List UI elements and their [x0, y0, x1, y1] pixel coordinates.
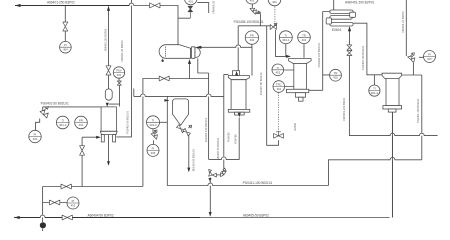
svg-text:401-2: 401-2 [59, 123, 67, 127]
svg-text:402: 402 [333, 76, 338, 80]
svg-text:PG0405-100 B02L01: PG0405-100 B02L01 [234, 20, 264, 24]
svg-text:PI: PI [64, 43, 67, 47]
svg-text:A60405-50 B3P02: A60405-50 B3P02 [243, 213, 269, 217]
svg-text:FR: FR [250, 34, 254, 38]
svg-text:VR0403-25 B3P02: VR0403-25 B3P02 [212, 0, 216, 14]
svg-text:PI: PI [152, 146, 155, 150]
svg-text:TI: TI [152, 118, 155, 122]
svg-text:TI: TI [277, 66, 280, 70]
svg-text:401: 401 [117, 73, 122, 77]
svg-text:402: 402 [71, 204, 76, 208]
svg-text:PG0405 100 B02L01: PG0405 100 B02L01 [204, 117, 208, 142]
svg-text:VR0401-25 B3P02: VR0401-25 B3P02 [120, 40, 124, 62]
svg-text:PG0406-100 B02L01: PG0406-100 B02L01 [317, 42, 321, 67]
svg-text:A66403 125 B3P02: A66403 125 B3P02 [104, 28, 108, 51]
svg-text:B00104 50 B02L01: B00104 50 B02L01 [191, 149, 195, 172]
svg-text:PG0402-50 B02L01: PG0402-50 B02L01 [126, 111, 130, 134]
svg-text:TI: TI [373, 87, 376, 91]
svg-text:E0404: E0404 [332, 28, 341, 32]
svg-text:PI: PI [428, 53, 431, 57]
svg-text:PG0406-100 B02L01: PG0406-100 B02L01 [361, 45, 365, 70]
svg-text:401-4: 401-4 [371, 91, 379, 95]
svg-text:401: 401 [33, 137, 38, 141]
svg-text:CW0401-200 B2101: CW0401-200 B2101 [342, 97, 346, 121]
svg-text:PSV: PSV [116, 69, 122, 73]
svg-text:407: 407 [427, 57, 432, 61]
svg-text:PG0407-80 B02L01: PG0407-80 B02L01 [259, 72, 263, 95]
svg-text:E0409: E0409 [293, 122, 297, 130]
svg-text:PG0401-100 B02L01: PG0401-100 B02L01 [416, 98, 420, 123]
svg-text:401: 401 [250, 0, 255, 3]
svg-text:TI: TI [285, 33, 288, 37]
svg-text:A66401-250 B3P02: A66401-250 B3P02 [47, 0, 75, 4]
svg-text:PG0401-50 B02L01: PG0401-50 B02L01 [41, 102, 69, 106]
svg-text:401: 401 [302, 38, 307, 42]
svg-text:406: 406 [151, 151, 156, 155]
svg-text:PG0411-100 B02L01: PG0411-100 B02L01 [243, 181, 273, 185]
svg-text:401-3: 401-3 [149, 123, 157, 127]
svg-text:401: 401 [272, 0, 277, 4]
svg-text:401: 401 [79, 123, 84, 127]
svg-text:Y00/Y80: Y00/Y80 [227, 132, 231, 143]
svg-text:A60405 25 B02L01: A60405 25 B02L01 [216, 137, 220, 160]
svg-text:HW0401-200 B2P01: HW0401-200 B2P01 [345, 0, 374, 4]
svg-text:TI: TI [61, 119, 64, 123]
svg-text:A60404-50 B3P02: A60404-50 B3P02 [88, 213, 114, 217]
svg-text:401: 401 [188, 0, 193, 3]
svg-text:TRC: TRC [276, 83, 282, 87]
svg-text:PR: PR [79, 119, 83, 123]
svg-text:TR: TR [302, 33, 306, 37]
svg-text:404: 404 [63, 48, 68, 52]
svg-text:Y00/Y80: Y00/Y80 [234, 134, 238, 145]
svg-text:TR: TR [334, 71, 338, 75]
svg-text:PI: PI [34, 133, 37, 137]
svg-text:402: 402 [275, 70, 280, 74]
svg-text:402: 402 [250, 38, 255, 42]
svg-text:VR0404-15 B3P02: VR0404-15 B3P02 [401, 11, 405, 33]
svg-text:401-1: 401-1 [282, 38, 290, 42]
svg-text:PI: PI [72, 199, 75, 203]
svg-text:401: 401 [276, 87, 281, 91]
